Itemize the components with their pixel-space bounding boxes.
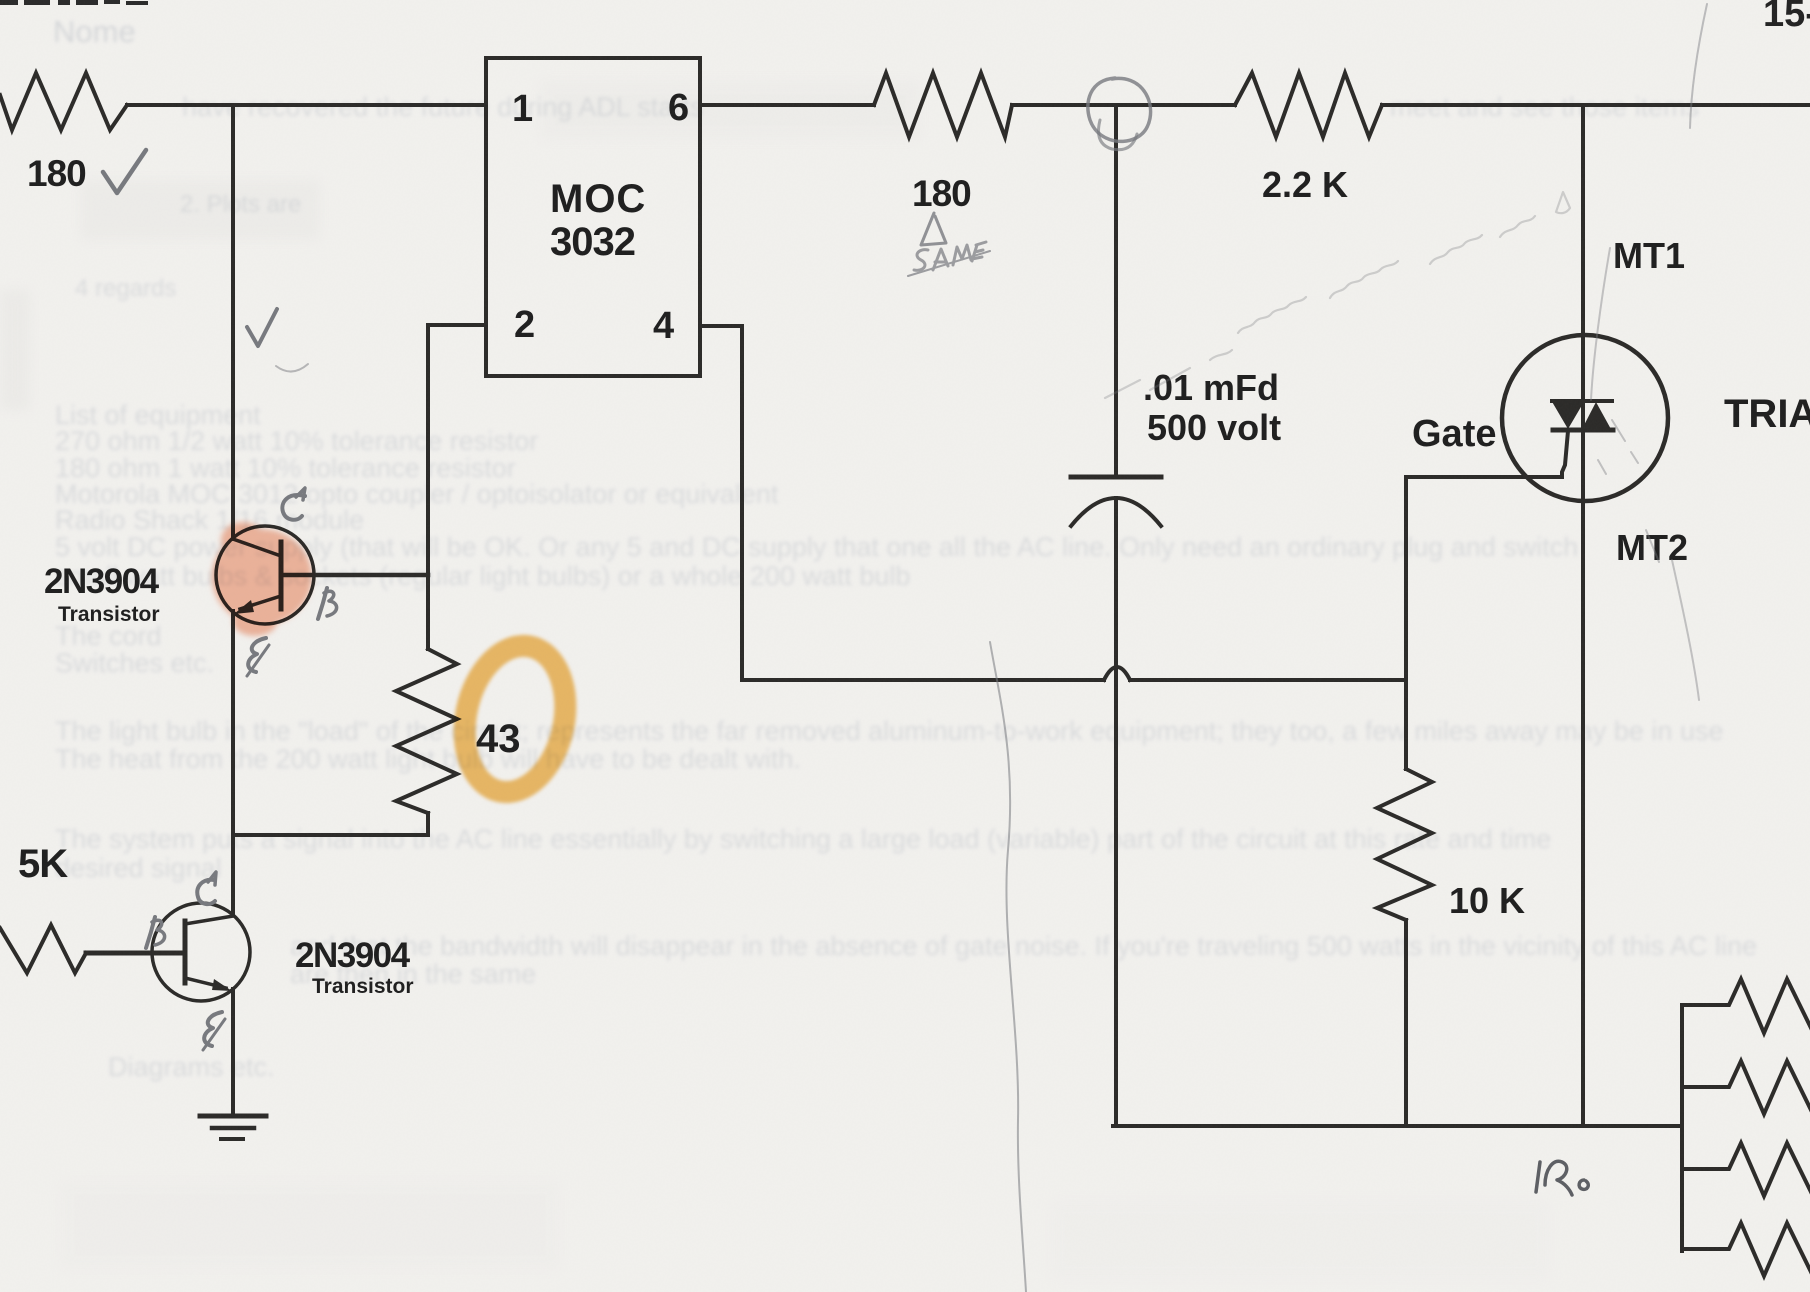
- wire pin2 down x=428: [426, 325, 430, 649]
- wire emitter to ground x=233 lower: [231, 989, 235, 1114]
- handwritten E (Q1): [248, 638, 266, 672]
- handwritten C (Q2): [197, 880, 215, 904]
- load resistor RL4: [1682, 1223, 1810, 1276]
- wire collector/emitter line x=233 middle: [231, 611, 235, 915]
- TRIAC symbol top bar: [1552, 399, 1612, 403]
- faint pencil handwriting above TRIAC: [1105, 192, 1570, 398]
- resistor R2 180 (middle top): [874, 73, 1012, 137]
- wire capacitor drop x=1116 lower: [1114, 498, 1118, 1126]
- wire MOC pin2 stub: [428, 323, 486, 327]
- ground bar 2: [212, 1126, 254, 1131]
- scan artifact: dark dashes top edge: [0, 0, 148, 5]
- wire 5K to base: [86, 951, 185, 956]
- capacitor C1 top plate: [1071, 475, 1161, 480]
- resistor R6 5K: [0, 925, 86, 973]
- wire capacitor drop x=1116 upper: [1114, 107, 1118, 477]
- transistor Q2 circle: [152, 903, 250, 1001]
- pencil curve top-right corner: [1690, 4, 1707, 128]
- transistor Q1 circle: [216, 526, 314, 624]
- ground bar 1: [200, 1114, 266, 1119]
- handwritten E (Q2): [204, 1012, 222, 1046]
- TRIAC symbol bottom bar: [1553, 428, 1613, 433]
- load resistor RL2: [1682, 1061, 1810, 1114]
- resistor R5 10K (vertical): [1377, 769, 1432, 920]
- resistor R1 180 (top-left): [0, 73, 127, 130]
- wire hop over capacitor line: [1104, 667, 1130, 680]
- capacitor C1 curved plate: [1071, 498, 1161, 526]
- handwritten B (Q2): [146, 917, 155, 948]
- opto-isolator U1 MOC 3032 box: [486, 58, 700, 376]
- highlighter ring around 43: [452, 636, 579, 801]
- transistor Q1 emitter arrowhead: [234, 600, 254, 614]
- load bracket vertical: [1680, 1005, 1684, 1251]
- pencil circle on junction node A: [1088, 78, 1151, 141]
- load resistor RL3: [1682, 1143, 1810, 1196]
- wire pin 6 to resistor: [700, 103, 874, 107]
- wire 43 to emitter junction: [233, 833, 428, 837]
- wire to gate node: [1130, 678, 1406, 682]
- faint photocopy bleed-through text: [53, 14, 1757, 1082]
- TRIAC symbol left triangle: [1551, 400, 1585, 429]
- TRIAC symbol right triangle: [1581, 402, 1612, 431]
- wire collector line x=233 upper: [231, 107, 235, 539]
- transistor Q2 base bar: [183, 921, 188, 983]
- handwritten C (Q1): [282, 495, 305, 520]
- ground bar 3: [221, 1137, 243, 1141]
- wire pin4 horizontal run: [742, 678, 1104, 682]
- checkmark near 180: [103, 150, 146, 193]
- transistor Q1 base bar: [279, 542, 284, 609]
- transistor Q1 emitter lead: [240, 596, 281, 609]
- checkmark mid-left: [247, 309, 277, 346]
- component value labels: [18, 87, 1810, 998]
- wire MT1-MT2 vertical x=1583: [1581, 107, 1585, 1126]
- pencil marks near TRIAC: [1591, 248, 1699, 700]
- wire top-right: [1382, 103, 1810, 107]
- transistor Q2 collector lead: [185, 916, 233, 924]
- transistor Q2 emitter lead: [185, 978, 226, 988]
- wire gate node to 10K: [1404, 680, 1408, 769]
- pencil squiggle long vertical: [990, 642, 1026, 1292]
- transistor Q2 emitter arrowhead: [212, 979, 232, 991]
- wire node A junction: [1012, 103, 1235, 107]
- wire top-left to opto: [127, 103, 486, 107]
- wire bottom bus: [1113, 1124, 1682, 1128]
- salmon highlight on Q1: [212, 522, 312, 636]
- resistor R4 43 (vertical): [396, 649, 457, 813]
- wire MOC pin4 stub: [700, 324, 742, 328]
- wire pin4 down x=742: [740, 326, 744, 680]
- gate wire of TRIAC: [1406, 431, 1568, 680]
- handwritten Ro: [1536, 1161, 1588, 1195]
- load resistor RL1: [1682, 979, 1810, 1033]
- TRIAC body circle: [1502, 335, 1668, 501]
- handwritten B (Q1): [318, 588, 327, 619]
- wire below 43: [426, 813, 430, 835]
- transistor Q1 base wire: [281, 573, 428, 578]
- resistor R3 2.2K: [1235, 73, 1382, 137]
- handwritten SAME: [908, 242, 990, 276]
- transistor Q1 collector lead: [233, 539, 281, 556]
- handwritten triangle delta: [921, 213, 946, 245]
- wire 10K to bottom: [1404, 920, 1408, 1126]
